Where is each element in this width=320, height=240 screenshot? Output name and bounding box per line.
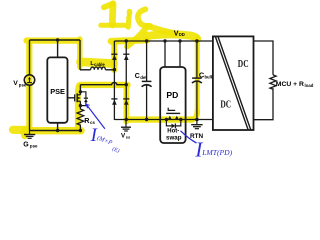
node PSE bottom pin	[56, 129, 59, 132]
highlighter scribble c tail down-left	[127, 27, 148, 47]
node C_det bottom	[145, 118, 148, 121]
wire VDD rail	[114, 40, 212, 42]
highlighter stroke over bottom-left rail	[25, 127, 81, 134]
svg-text:V: V	[13, 80, 18, 87]
ground V_ss	[121, 120, 131, 132]
svg-text:DC: DC	[238, 59, 249, 70]
ground G_pse	[24, 131, 35, 139]
highlighter stroke over top-left rail	[27, 37, 80, 43]
highlighter scribble c tail right	[148, 26, 176, 34]
diode D6 (hot-swap bypass)	[166, 120, 180, 129]
svg-text:MCU + R: MCU + R	[276, 81, 304, 88]
node PD pin2 top	[178, 39, 181, 42]
wire drop to cable level	[79, 40, 81, 70]
wire PSE top pin	[57, 40, 59, 57]
highlighter stroke down C_bulk line	[195, 37, 200, 114]
node R_cs bottom	[79, 129, 82, 132]
svg-text:pse: pse	[19, 83, 27, 88]
highlighter stroke over L_cable wire	[81, 62, 114, 64]
node PD pin1 top	[163, 39, 166, 42]
node Q1 top	[79, 90, 82, 93]
highlighter scribble i dot	[127, 12, 133, 14]
diode bridge right line	[125, 41, 127, 120]
node bridge right top	[125, 39, 128, 42]
highlighter stroke over VDD rail	[111, 40, 147, 41]
annotation arrow to Q1	[86, 104, 105, 129]
diode D1	[111, 53, 117, 55]
node Q2 source	[165, 118, 168, 121]
wire Q1 drain down	[79, 101, 81, 109]
ground RTN	[191, 120, 202, 129]
highlighter scribble i stem	[126, 17, 132, 27]
PD box	[160, 67, 185, 143]
resistor R_cs	[77, 109, 84, 131]
svg-text:pse: pse	[30, 143, 38, 148]
transistor Q2 (hot-swap FET)	[166, 108, 180, 114]
highlighter stroke down PSE FET and R_cs	[78, 85, 80, 128]
transistor Q1 (PSE port FET)	[75, 93, 81, 102]
diode D3	[111, 98, 117, 100]
annotation hook to hot-swap	[181, 131, 197, 143]
wire Vpse top to rail	[29, 40, 31, 75]
wire DC out bottom	[254, 88, 274, 120]
wire top-left rail	[30, 39, 81, 41]
svg-text:swap: swap	[166, 134, 182, 141]
wire DC out top	[254, 41, 274, 75]
svg-text:PSE: PSE	[50, 87, 65, 96]
highlighter corner at RTN	[190, 111, 197, 120]
svg-text:PD: PD	[166, 90, 178, 100]
node PSE top rail	[56, 38, 59, 41]
wire inductor to bridge	[105, 69, 114, 71]
node C_det top	[145, 39, 148, 42]
DC-DC diagonal lines	[215, 36, 248, 130]
diode D4	[123, 98, 129, 100]
highlighter stroke over return wire y=85	[81, 82, 128, 88]
PSE box	[47, 57, 67, 122]
wire gate lead PSE to Q1	[68, 97, 75, 99]
wire to inductor	[80, 69, 91, 71]
highlighter stroke over Vpse vertical wire	[26, 44, 32, 132]
wire PD pin 2	[179, 41, 181, 67]
wire return path y=85 to bridge (with hop)	[80, 83, 126, 85]
svg-text:ss: ss	[126, 134, 131, 139]
highlighter scribble digit 1 base	[101, 23, 125, 28]
capacitor C_det	[142, 41, 152, 120]
node bridge right bottom	[125, 118, 128, 121]
highlighter band above VDD label	[147, 34, 198, 39]
svg-text:det: det	[140, 75, 147, 80]
highlighter stroke over bridge left diode	[111, 43, 117, 70]
capacitor C_bulk	[192, 41, 202, 120]
node bridge left / L_cable	[113, 68, 116, 71]
wire return corner down to Q1	[79, 85, 81, 95]
svg-text:DC: DC	[220, 99, 231, 110]
voltage source Vpse	[24, 75, 34, 85]
svg-text:G: G	[23, 141, 29, 148]
inductor L_cable	[91, 67, 106, 70]
svg-text:LMT(PD): LMT(PD)	[201, 148, 232, 157]
wire bottom-left rail	[30, 130, 81, 132]
highlighter stroke over G_pse corner	[24, 129, 28, 137]
node RTN junction	[195, 118, 199, 122]
node bridge right / return	[125, 83, 128, 86]
svg-text:load: load	[305, 83, 314, 88]
wire PSE bottom pin	[57, 123, 59, 131]
wire bottom return rail	[114, 119, 212, 121]
highlighter scribble digit 1 flag	[104, 4, 113, 8]
wire Vpse bottom	[29, 85, 31, 130]
wire PD pin 1	[164, 41, 166, 67]
highlighter stroke over return rail through PD	[128, 116, 193, 122]
highlighter stroke over x=80 drop wire	[77, 39, 82, 67]
highlighter scribble digit 1 stem	[109, 4, 116, 25]
node C_bulk top	[195, 39, 198, 42]
svg-text:cable: cable	[94, 62, 105, 67]
DC-DC converter box	[213, 36, 254, 130]
highlighter stroke up bridge right lower diode	[124, 87, 130, 122]
svg-text:DD: DD	[179, 32, 185, 37]
diode D2	[123, 53, 129, 55]
node Q1 bottom	[79, 104, 82, 107]
highlighter scribble c hook	[138, 9, 150, 26]
diode D5 (Q1 body diode)	[80, 92, 88, 106]
diode bridge left line	[113, 41, 115, 120]
node Q2 drain	[179, 118, 182, 121]
svg-text:C: C	[135, 73, 140, 80]
resistor R_load	[270, 75, 276, 89]
